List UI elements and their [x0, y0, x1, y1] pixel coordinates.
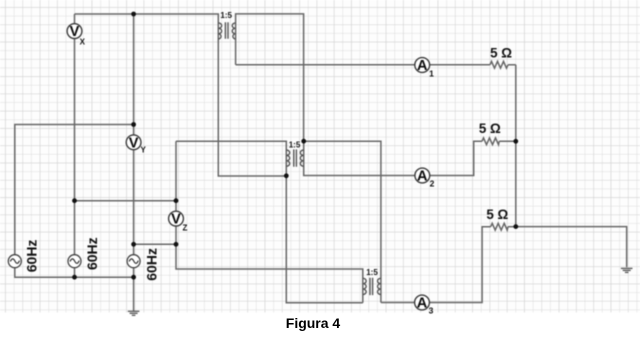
wire: Vx branch vertical (Vx top stub) [74, 14, 76, 24]
wire: T2 primary top horizontal [176, 141, 363, 303]
wire: source S1 top up and right to node J2 [15, 125, 134, 256]
wire: Vz bottom to J6 then down and right to T3 primary top [176, 226, 363, 303]
voltmeter Vx [67, 24, 86, 47]
node J5 [131, 242, 136, 247]
svg-text:A: A [417, 58, 428, 74]
svg-text:5 Ω: 5 Ω [490, 46, 512, 61]
svg-text:1:5: 1:5 [289, 141, 301, 150]
node J11: S2 bottom [72, 275, 77, 280]
wire: top node from Vx corner to transformer T1 primary [75, 14, 287, 176]
wire: Vy bottom down to source S3 top [133, 149, 135, 255]
svg-text:V: V [70, 24, 80, 40]
svg-text:5 Ω: 5 Ω [479, 121, 501, 136]
ammeter A1 [415, 58, 434, 79]
ground right [621, 268, 633, 272]
ammeter A2 [415, 168, 435, 189]
node J3 [72, 198, 77, 203]
svg-text:A: A [417, 296, 428, 312]
ground left [128, 311, 140, 315]
svg-text:V: V [171, 212, 181, 228]
source S1 60Hz [8, 240, 39, 273]
wire: S3 bottom down to left ground [133, 267, 135, 311]
wire: T1 secondary top right and down to T2 secondary top [236, 14, 304, 141]
transformer T2 1:5 [286, 149, 303, 166]
node J4 [174, 198, 179, 203]
source S2 60Hz [68, 237, 100, 270]
voltmeter Vy [126, 135, 146, 155]
node J2 [131, 122, 136, 127]
svg-text:2: 2 [430, 179, 435, 189]
svg-text:Y: Y [141, 146, 147, 155]
resistor R2 5ohm [482, 138, 499, 145]
resistor R3 5ohm [491, 223, 508, 230]
voltmeter Vz [169, 211, 188, 232]
wire: J6 left to J5 on S3 branch [134, 243, 176, 245]
wire: node J1 down to voltmeter Vy [133, 14, 135, 135]
svg-text:60Hz: 60Hz [24, 240, 40, 273]
resistor R1 5ohm [490, 61, 508, 68]
node J7: T2 primary bottom [284, 173, 289, 178]
svg-text:5 Ω: 5 Ω [486, 207, 508, 222]
ammeter A3 [415, 295, 434, 315]
svg-text:V: V [129, 135, 139, 151]
wire: Vx bottom down to source S2 top [74, 38, 76, 255]
node J12: S3 bottom [131, 275, 136, 280]
node J8: T2 secondary top [301, 139, 306, 144]
wire: T3 secondary bottom right to A3 then up to R3 [381, 227, 491, 303]
caption Figura 4 [286, 315, 340, 331]
svg-text:X: X [80, 38, 86, 47]
wire: T2 secondary top right then down to T3 secondary top [304, 141, 381, 302]
svg-text:1: 1 [429, 69, 434, 79]
wire: R3 right lead to rail node [508, 226, 516, 228]
svg-text:60Hz: 60Hz [84, 237, 100, 270]
transformer T1 1:5 [218, 22, 235, 39]
wire: T1 secondary bottom right to A1 and resistor R1 [236, 64, 490, 66]
svg-text:60Hz: 60Hz [144, 248, 160, 281]
node J1 [131, 12, 136, 17]
wire: Vz branch from T2 primary top corner down to Vz [175, 141, 177, 211]
wire: S2 bottom stub [74, 267, 76, 277]
svg-text:Z: Z [183, 224, 188, 233]
node J9: rail R2 [513, 139, 518, 144]
wire: R2 right lead to rail node [499, 140, 516, 142]
wire: T2 secondary bottom right to A2 then up to R2 [304, 141, 482, 175]
wire: source bottoms bus S1-S2-S3 [15, 267, 134, 277]
svg-text:3: 3 [429, 306, 434, 316]
svg-text:1:5: 1:5 [220, 11, 232, 20]
svg-text:A: A [417, 169, 428, 185]
node J6 [174, 242, 179, 247]
wire: R1 right lead to rail [508, 64, 516, 66]
source S3 60Hz [127, 248, 160, 281]
wire: right rail vertical [515, 65, 517, 227]
wire: horizontal from J3 to Vz branch J4 [75, 200, 177, 202]
transformer T3 1:5 [363, 278, 381, 295]
node J10: rail R3 [513, 224, 518, 229]
wire: rail node right to right ground [516, 227, 627, 268]
svg-text:1:5: 1:5 [366, 268, 378, 277]
